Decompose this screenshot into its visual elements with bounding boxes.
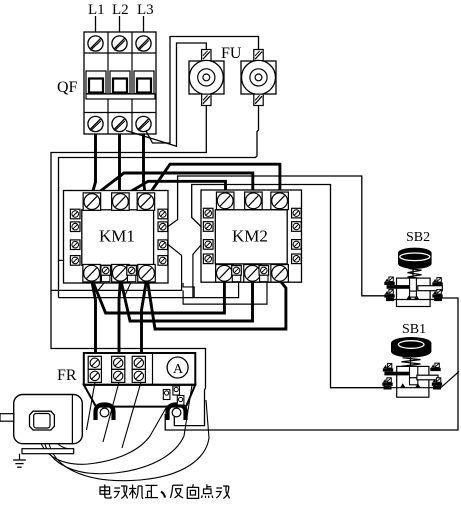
svg-text:L1: L1 [88,2,105,18]
KM1 right aux 3 [158,240,168,250]
KM2 bottom aux terminal B [259,265,269,281]
wire KM1 top3 branch to KM2 top3 [148,164,280,196]
FR terminal cell 2 top [112,356,125,369]
wire SB1 right contact diagonal [441,372,459,388]
QF pole 1 bottom terminal [88,116,103,131]
KM2 bottom terminal 3 [271,265,289,283]
KM1 top terminal 3 [137,193,155,211]
contactor KM1 outer box [64,191,169,284]
motor base bar [22,449,74,454]
SB1 NC bar right open [417,375,438,380]
KM2 bottom terminal 1 [216,265,234,283]
svg-text:SB2: SB2 [406,230,430,245]
wire KM2 bottom 3 to join [148,280,286,329]
wire KM1 bottom 2 to FR 2 [119,280,120,356]
KM2 left aux 3 [203,240,213,250]
motor junction box [30,411,55,430]
QF pole 3 bottom terminal [136,116,151,131]
fuse FU1 [189,50,224,106]
QF pole 2 handle [110,71,130,94]
wire SB2 right contact down right edge [165,298,458,430]
wire KM1 bottom auxB drop [124,281,132,298]
wire L2 lead [119,16,121,37]
caption glyph ji machine [129,485,143,499]
KM1 bottom aux terminal A [101,265,111,281]
contactor KM1 body [82,210,154,265]
motor cable stub [53,430,76,443]
caption glyph comma [161,492,165,498]
motor M body [14,395,83,444]
wire KM1 bottom 3 to FR 3 [142,280,147,356]
wire fuse FU1 output to left loop down to FR bypass [51,106,206,426]
svg-text:FU: FU [221,45,242,62]
KM1 left aux 1 [70,209,80,219]
fuse FU2 [241,50,276,106]
wire QF pole2 to fuse feed riser [126,43,206,146]
pushbutton SB2 body [397,278,431,306]
caption glyph dong2 move [216,486,230,498]
KM2 right aux 4 [292,254,302,264]
caption glyph xiang direction [187,484,198,498]
KM2 right aux 2 [292,222,302,232]
FR divider [152,353,154,385]
pushbutton SB2 cap [398,248,432,269]
wire KM1 right aux2 to SB2 chain [168,176,387,296]
wire KM1 top2 branch to KM2 top1 [123,181,226,196]
thermal relay FR main box [84,353,196,385]
SB2 right lower terminal [432,290,442,298]
svg-text:KM2: KM2 [232,227,268,246]
QF pole 2 top terminal [112,36,127,51]
QF pole 3 handle [134,71,154,94]
FR aux contact terminal C [177,396,184,406]
KM2 left aux 4 [203,254,213,264]
ground [13,454,26,468]
QF pole 1 top terminal [88,36,103,51]
wire left loop stub to KM1 left aux 4 [59,259,67,261]
contactor KM2 outer box [201,190,302,282]
svg-text:FR: FR [57,367,77,384]
SB1 plunger [410,366,418,384]
KM1 right aux 4 [158,256,168,266]
motor end cap line [71,395,73,444]
FR aux contact terminal A [163,390,170,400]
QF pole 3 top terminal [136,36,151,51]
caption glyph dong1 move [114,486,128,498]
KM1 bottom aux terminal B [127,265,137,281]
svg-text:L3: L3 [137,2,154,18]
wire KM2 bottom aux2 run [183,281,267,304]
motor cable arc 2 [43,385,192,474]
KM1 bottom terminal 2 [112,264,129,282]
KM1 top terminal 2 [112,193,129,211]
wire KM1 right aux3 return [51,245,182,291]
FR right mounting foot [168,405,186,421]
QF pole 2 bottom terminal [112,116,127,131]
SB2 NO contact row [386,295,442,301]
caption 电动机正、反向点动 [100,484,230,498]
SB1 NC moving bar left [384,372,409,376]
FR left mounting foot [96,405,114,421]
motor cable arc 3 [48,400,209,481]
FR terminal cell 3 top [132,356,145,369]
motor cable stub 2 [50,430,72,449]
KM1 bottom terminal 3 [138,264,156,282]
wire KM1 top1 branch to KM2 top2 [94,173,253,196]
contactor KM2 body [215,210,287,264]
svg-text:KM1: KM1 [99,227,135,246]
FR terminal cell 3 bottom [132,369,145,382]
FR terminal cell 1 top [88,356,101,369]
FR terminal cell 1 bottom [88,369,101,382]
svg-text:QF: QF [57,79,78,96]
SB1 left lower terminal [382,378,392,386]
SB2 NC moving bar left [387,285,410,289]
SB2 NC bar right open [418,286,443,291]
KM2 bottom aux terminal A [232,265,242,281]
KM1 left aux 2 [70,222,80,232]
wire QF output 1 to KM1 top 1 [92,134,96,196]
wire QF output 3 to KM1 top 3 [144,134,146,196]
KM2 right aux 3 [292,240,302,250]
SB2 right upper terminal [432,278,442,286]
wire KM2 left aux2 to SB1 chain [192,185,385,388]
SB1 left upper terminal [383,364,393,372]
caption glyph fan reverse [170,485,183,498]
wire gap staircase junction [183,283,194,298]
KM1 right aux 2 [158,222,168,232]
caption glyph zheng forward [145,485,158,497]
wire KM1 bottom 1 to FR 1 [92,280,96,356]
svg-text:L2: L2 [112,2,129,18]
pushbutton SB1 body [397,366,429,397]
wire KM2 bottom aux1 run [59,281,239,298]
FR trapezoid base [84,385,196,407]
wire fuse FU2 output to left loop to KM1 aux [59,106,259,298]
SB2 left upper terminal [384,277,394,285]
wire FR output diagonal 3 [122,382,141,448]
svg-text:A: A [173,362,184,377]
wire KM2 bottom 2 to join [121,280,253,321]
KM2 bottom terminal 2 [244,265,262,283]
motor cable arc 1 [38,408,166,464]
KM1 left aux 3 [70,240,80,250]
wire FR output diagonal 2 [103,382,119,442]
KM2 top terminal 3 [271,192,289,210]
motor shaft [0,414,14,422]
wire L3 lead [143,16,145,37]
wire QF output 2 to KM1 top 2 [118,134,121,196]
caption glyph dian1 electric [100,484,111,498]
KM1 left aux 4 [70,256,80,266]
FR aux contact terminal B [173,386,180,395]
pushbutton SB1 spring [402,358,421,368]
svg-text:SB1: SB1 [402,322,426,337]
KM1 top terminal 1 [83,193,101,211]
QF pole 1 handle [86,71,106,94]
wire KM1 bottom auxA drop [98,281,106,290]
KM1 right aux 1 [158,209,168,219]
SB2 left lower terminal [384,290,394,298]
wire FR output diagonal 1 [87,382,96,430]
KM2 left aux 1 [203,208,213,218]
SB1 right lower terminal [432,378,442,386]
wire QF pole3 to fuse feed riser [146,37,259,144]
KM2 top terminal 1 [216,192,234,210]
KM2 top terminal 2 [245,192,263,210]
wire KM2 bottom 1 to join [93,280,225,313]
pushbutton SB1 cap [391,337,431,358]
FR terminal cell 2 bottom [112,369,125,382]
SB2 plunger [410,278,417,297]
KM2 right aux 1 [292,208,302,218]
circuit breaker QF body [84,32,156,134]
wire L1 lead [95,16,97,37]
wire KM2 left aux3 return [193,245,201,298]
ammeter PA [167,357,188,378]
SB1 NO contact row [384,383,442,389]
SB1 right upper terminal [430,363,440,371]
pushbutton SB2 spring [408,268,422,278]
caption glyph dian2 jog [202,484,213,498]
KM1 bottom terminal 1 [83,264,101,282]
QF trip bar [86,94,155,99]
KM2 left aux 2 [203,222,213,232]
